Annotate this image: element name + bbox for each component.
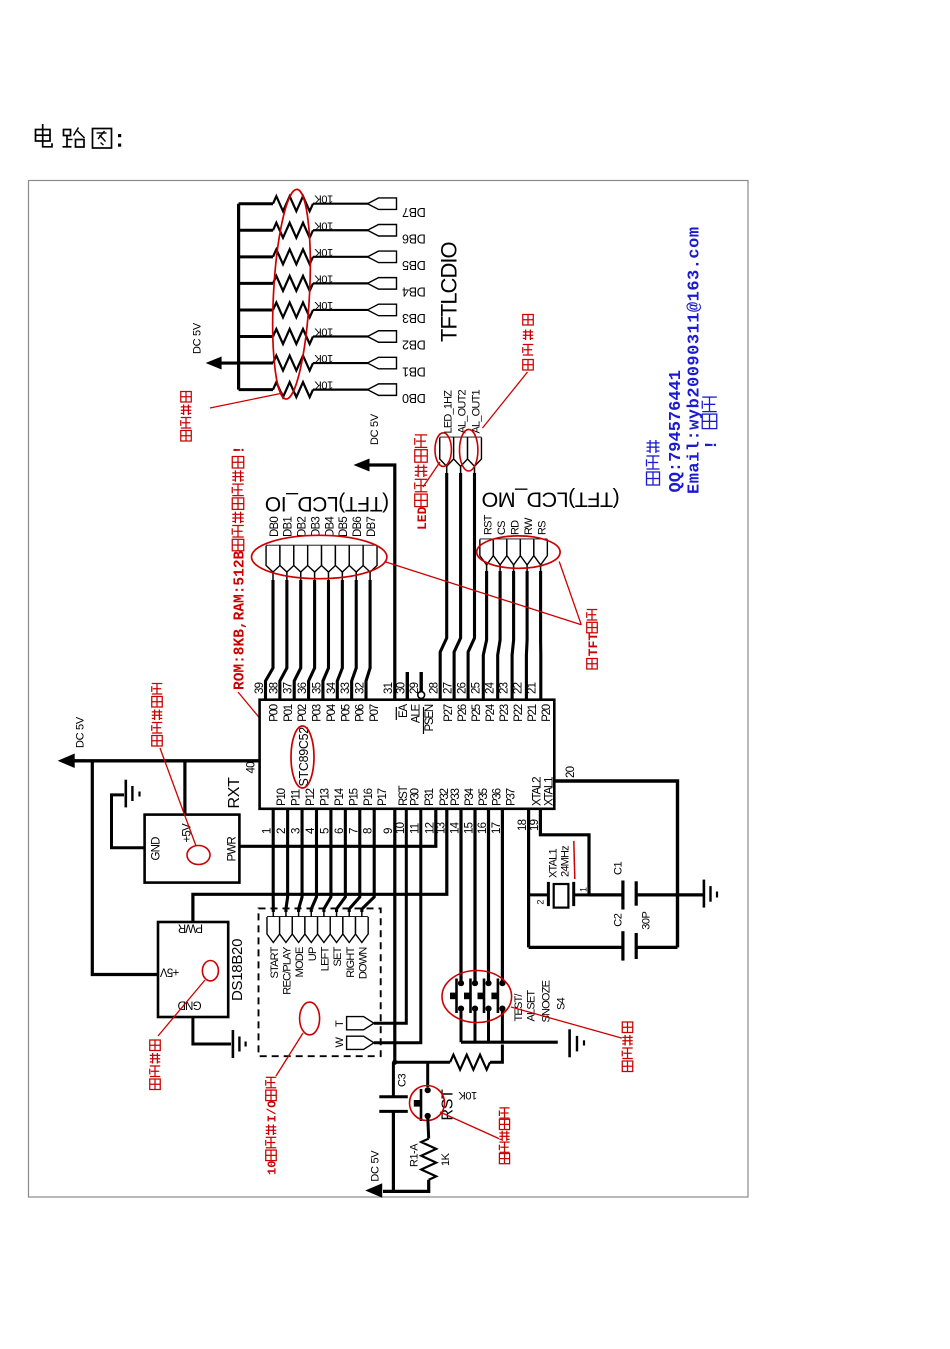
wire button to ground bus: [460, 1009, 463, 1043]
svg-text:P15: P15: [348, 788, 360, 806]
wire CS flag to pin 24: [499, 565, 501, 572]
svg-text:20: 20: [565, 766, 577, 778]
resistor R1 10K pull-up DB7: [239, 202, 273, 205]
svg-text:P21: P21: [527, 704, 539, 722]
svg-text:XTAL1: XTAL1: [543, 777, 555, 806]
svg-text:PSEN: PSEN: [424, 704, 436, 731]
svg-text:10K: 10K: [314, 193, 333, 205]
svg-text:P34: P34: [464, 787, 476, 806]
wire pin 18 (XTAL2) rail: [527, 809, 530, 948]
IR receiver U2 RXT body: [145, 815, 240, 883]
svg-text:2: 2: [535, 900, 545, 905]
wire RD flag to pin 23: [513, 565, 515, 572]
resistor R2 10K (RST pulldown): [450, 1055, 490, 1070]
annotation text 闹钟输出: [523, 360, 534, 371]
svg-text:DB6: DB6: [402, 231, 426, 245]
svg-text:10K: 10K: [314, 219, 333, 231]
annotation leader line (pull-up): [210, 393, 283, 408]
ground (RXT): [125, 780, 128, 808]
svg-text:DB1: DB1: [283, 517, 295, 537]
ground (DS18B20): [232, 1030, 235, 1058]
svg-text:RST: RST: [482, 514, 494, 535]
svg-text:DB5: DB5: [402, 258, 426, 272]
port flag DB0: [368, 384, 397, 396]
wire pin 9 (RST) down to reset node: [393, 809, 396, 1062]
svg-text:10K: 10K: [314, 352, 333, 364]
svg-text:RS: RS: [536, 521, 548, 535]
resistor R1-A 1K: [428, 1116, 429, 1139]
wire button to ground bus: [474, 1009, 477, 1043]
schematic border frame: [29, 181, 749, 1198]
svg-text:(TFT)LCD_MO: (TFT)LCD_MO: [482, 488, 620, 512]
svg-text:P12: P12: [305, 788, 317, 806]
svg-text:SET: SET: [332, 946, 344, 966]
svg-text:39: 39: [254, 682, 266, 694]
svg-text:P37: P37: [505, 788, 517, 806]
svg-text:S4: S4: [556, 997, 568, 1010]
svg-text:10K: 10K: [458, 1089, 477, 1101]
wire pin 7 to RIGHT flag: [349, 809, 360, 912]
annotation text 温度探头: [150, 1079, 161, 1090]
resistor R6 10K pull-up DB2: [239, 335, 273, 338]
svg-text:START: START: [269, 946, 281, 978]
wire DB3 flag to pin 36: [314, 572, 316, 581]
port flag DB7: [368, 198, 397, 210]
wire C1 to ground rail: [636, 893, 703, 896]
port flags START..DOWN (keypad nets): [267, 916, 368, 918]
annotation text 接TFT彩屏: [587, 659, 598, 670]
port flag W: [347, 1036, 374, 1049]
svg-text:P00: P00: [269, 704, 281, 722]
svg-text:35: 35: [311, 682, 323, 694]
svg-text:P06: P06: [355, 704, 367, 722]
svg-text:P07: P07: [369, 704, 381, 722]
svg-text:DC 5V: DC 5V: [75, 716, 87, 748]
svg-text:P30: P30: [409, 788, 421, 806]
wire DB1 flag to pin 38: [286, 572, 288, 581]
resistor R8 10K pull-up DB0: [239, 388, 273, 391]
wire pin 8 to DOWN flag: [362, 809, 374, 912]
svg-text:DS18B20: DS18B20: [229, 939, 246, 1001]
svg-text:!: !: [233, 445, 249, 454]
wire DS18B20 DQ to pin 13 (P33): [193, 809, 447, 922]
svg-text:P35: P35: [478, 788, 490, 806]
resistor R5 10K pull-up DB3: [239, 308, 273, 311]
svg-text:P17: P17: [377, 788, 389, 806]
wire DB4 flag to pin 35: [327, 572, 329, 581]
temperature sensor U3 DS18B20 body: [158, 922, 228, 1017]
svg-text:ROM:8KB,RAM:512B: ROM:8KB,RAM:512B: [233, 550, 249, 690]
annotation ellipse around AL_OUT flags: [460, 429, 478, 471]
crystal Y1 XTAL1 24MHz: [529, 893, 549, 896]
annotation leader 温度探头: [158, 980, 205, 1036]
connector (TFT)LCD_IO port flags DB0-DB7: [266, 545, 377, 547]
svg-text:P14: P14: [334, 787, 346, 806]
port flag DB3: [368, 304, 397, 316]
annotation ellipse around S4: [442, 971, 512, 1023]
svg-text:P26: P26: [457, 704, 469, 722]
annotation ellipse around LCD_MO flags: [477, 536, 560, 568]
svg-text:21: 21: [526, 682, 538, 694]
power DC 5V (pull-up rail): [221, 361, 239, 364]
svg-text:24MHz: 24MHz: [560, 846, 572, 877]
svg-text:DB0: DB0: [269, 517, 281, 537]
wire RST node horizontal: [395, 1061, 450, 1064]
wire DB0 flag to pin 39: [272, 572, 274, 581]
svg-text:P31: P31: [424, 788, 436, 806]
svg-text:10K: 10K: [314, 326, 333, 338]
svg-text:1: 1: [578, 887, 588, 892]
svg-text:LED_1HZ: LED_1HZ: [443, 390, 455, 434]
svg-text:AL_OUT2: AL_OUT2: [456, 390, 468, 434]
wire crystal to C1: [589, 893, 623, 896]
svg-text:GND: GND: [151, 837, 163, 861]
push button S4-2: [472, 980, 478, 986]
wire pin 3 to MODE flag: [299, 809, 302, 912]
svg-text:38: 38: [268, 682, 280, 694]
wire pin 2 to REC/PLAY flag: [286, 809, 288, 912]
wire DS18B20 GND to ground: [193, 1017, 231, 1044]
svg-text:ALSET: ALSET: [526, 990, 538, 1022]
wire DB6 flag to pin 33: [355, 572, 357, 581]
svg-text:XTAL1: XTAL1: [548, 849, 560, 878]
svg-text:LED: LED: [415, 506, 430, 530]
resistor R2 10K pull-up DB6: [239, 229, 273, 232]
svg-text:P10: P10: [276, 788, 288, 806]
svg-text:+5V: +5V: [160, 966, 180, 978]
dashed group box (remote I/O ports): [259, 908, 381, 1056]
svg-text:RIGHT: RIGHT: [345, 946, 357, 977]
wire pin 16 to button: [487, 809, 490, 983]
push button S4-4: [499, 980, 505, 986]
svg-text:P05: P05: [340, 704, 352, 722]
svg-text:40: 40: [246, 762, 258, 774]
svg-text:31: 31: [383, 682, 395, 694]
annotation circle (RXT output): [187, 846, 210, 865]
svg-text:W: W: [334, 1037, 346, 1048]
wire pin 6 to SET flag: [337, 809, 346, 912]
annotation leader 遥控接收头: [160, 748, 196, 846]
wire pin 1 to START flag: [272, 809, 275, 912]
wire RXT PWR to pin 12 (P32): [239, 809, 435, 847]
svg-text:C3: C3: [397, 1074, 409, 1087]
svg-text:DB4: DB4: [324, 516, 336, 537]
annotation text 遥控接收头: [152, 736, 163, 747]
annotation circle around reset button: [410, 1086, 445, 1121]
svg-text:CS: CS: [496, 521, 508, 535]
wire W flag to pin 11 (P31): [374, 809, 421, 1043]
svg-text:1K: 1K: [440, 1152, 452, 1166]
svg-text:P27: P27: [443, 704, 455, 722]
svg-text:PWR: PWR: [178, 922, 203, 934]
wire button to ground bus: [501, 1009, 504, 1043]
annotation text 控制按键: [622, 1061, 633, 1072]
annotation leader 控制按键: [511, 1007, 622, 1038]
pin stub ALE pin 30: [406, 672, 409, 700]
svg-text:DB3: DB3: [402, 311, 426, 325]
wire RW flag to pin 22: [526, 565, 528, 572]
svg-text:P03: P03: [312, 704, 324, 722]
wire DB2 flag to pin 37: [300, 572, 302, 581]
svg-text:DB5: DB5: [338, 517, 350, 537]
wire LED_1HZ flag to pin 28: [446, 466, 448, 474]
svg-text:P11: P11: [291, 789, 303, 806]
svg-text:TFT: TFT: [586, 633, 601, 657]
svg-text:RXT: RXT: [226, 777, 243, 809]
annotation ellipse around pull-up resistors: [268, 188, 315, 400]
svg-text:DB7: DB7: [402, 205, 426, 219]
title text 电路图:: [36, 130, 51, 142]
port flag DB1: [368, 357, 397, 369]
svg-text:EA: EA: [398, 703, 410, 717]
resistor R3 10K pull-up DB5: [239, 255, 273, 258]
svg-text:RD: RD: [509, 520, 521, 535]
resistor R7 10K pull-up DB1: [239, 362, 273, 365]
svg-text:29: 29: [409, 682, 421, 694]
pin stub PSEN pin 29 with bubble: [420, 672, 423, 692]
svg-text:P16: P16: [363, 788, 375, 806]
svg-text:P02: P02: [297, 704, 309, 722]
annotation ellipse around STC89C52: [291, 726, 314, 788]
svg-text:28: 28: [429, 682, 441, 694]
svg-text:DB0: DB0: [402, 391, 426, 405]
port flag DB2: [368, 331, 397, 343]
svg-text:P25: P25: [471, 704, 483, 722]
svg-text:P01: P01: [283, 704, 295, 722]
svg-text:C2: C2: [613, 913, 625, 926]
svg-text:10K: 10K: [314, 379, 333, 391]
svg-text:P23: P23: [499, 704, 511, 722]
wire pin 15 to button: [473, 809, 476, 983]
svg-text:24: 24: [485, 681, 497, 694]
svg-text:RW: RW: [523, 517, 535, 535]
svg-text:33: 33: [340, 682, 352, 694]
wire branch to button: [426, 1062, 429, 1087]
annotation ellipse around LED_1HZ flag: [435, 433, 451, 467]
svg-text:P24: P24: [485, 703, 497, 722]
wire S4 ground bus: [461, 1041, 558, 1044]
wire pin 20 GND rail: [554, 781, 677, 947]
svg-text:RST: RST: [398, 785, 410, 806]
svg-text:DC 5V: DC 5V: [370, 1150, 382, 1182]
capacitor C1 30P: [621, 881, 624, 910]
svg-text:Email:wyb20090311@163.com: Email:wyb20090311@163.com: [686, 226, 705, 494]
svg-text:22: 22: [512, 682, 524, 694]
svg-text:26: 26: [457, 682, 469, 694]
wire pin 5 to LEFT flag: [324, 809, 331, 912]
svg-text:10K: 10K: [314, 272, 333, 284]
wire C2 left: [529, 946, 623, 949]
svg-text:DB4: DB4: [402, 285, 426, 299]
svg-text:LEFT: LEFT: [320, 946, 332, 971]
svg-text:P13: P13: [319, 788, 331, 806]
power DC 5V (reset): [365, 1183, 382, 1198]
node RST junction: [392, 1060, 397, 1065]
svg-text:TFTLCDIO: TFTLCDIO: [437, 242, 462, 342]
wire DB5 flag to pin 34: [341, 572, 343, 581]
wire AL_OUT1 flag to pin 26: [474, 466, 476, 474]
svg-text:23: 23: [498, 682, 510, 694]
svg-text:REC/PLAY: REC/PLAY: [282, 946, 294, 995]
annotation ellipse (I/O): [300, 1002, 320, 1035]
svg-text:R1-A: R1-A: [409, 1143, 421, 1167]
svg-text:9: 9: [383, 828, 395, 834]
push button S4-3: [485, 980, 491, 986]
svg-text:DB6: DB6: [352, 517, 364, 537]
svg-text:DB1: DB1: [402, 364, 426, 378]
annotation leader 10路遥控I/O输出: [276, 1033, 303, 1076]
svg-text:30P: 30P: [641, 911, 653, 929]
wire C2 right: [636, 946, 677, 949]
annotation text 这里一定要: [499, 1154, 509, 1164]
push button S4-1: [458, 980, 464, 986]
node VCC bus (pull-up resistors common rail): [237, 204, 240, 390]
power DC 5V (EA pin 31): [369, 465, 395, 700]
svg-text:30: 30: [395, 682, 407, 694]
resistor R4 10K pull-up DB4: [239, 282, 273, 285]
svg-text:DOWN: DOWN: [357, 947, 369, 979]
svg-text:MODE: MODE: [294, 947, 306, 977]
wire RST flag to pin 25: [486, 565, 488, 572]
annotation leader 这里一定要: [440, 1112, 499, 1139]
svg-text:25: 25: [471, 682, 483, 694]
wire pin 17 to button: [501, 809, 504, 983]
wire RXT GND to ground: [112, 795, 145, 848]
svg-text:!: !: [703, 440, 722, 450]
annotation text 上拉电阻: [181, 431, 192, 442]
push button RST (reset): [425, 1087, 431, 1093]
wire pin 14 to button: [459, 809, 462, 983]
svg-text:DB7: DB7: [366, 517, 378, 537]
annotation circle (DS18B20): [202, 961, 218, 981]
wire VCC to RXT +5V: [183, 761, 186, 815]
svg-text:DC 5V: DC 5V: [369, 413, 381, 445]
svg-text:34: 34: [326, 681, 338, 694]
svg-text:C1: C1: [613, 862, 625, 875]
svg-text:ALE: ALE: [410, 703, 422, 723]
svg-text:P20: P20: [541, 704, 553, 722]
power DC 5V (main, pin 40): [84, 759, 260, 762]
annotation red mark (24MHz): [574, 841, 575, 879]
svg-text:UP: UP: [307, 947, 319, 961]
ground (crystal): [703, 880, 706, 908]
port flag DB5: [368, 251, 397, 263]
port flag T: [347, 1017, 374, 1030]
wire pin 4 to UP flag: [311, 809, 316, 912]
svg-text:P04: P04: [326, 703, 338, 722]
wire T flag to pin 10 (P30): [374, 809, 406, 1023]
svg-text:TEST/: TEST/: [513, 993, 525, 1022]
annotation leaders to 接TFT彩屏: [386, 562, 581, 625]
svg-text:I/O: I/O: [266, 1101, 280, 1123]
svg-text:P33: P33: [450, 788, 462, 806]
svg-text:DB3: DB3: [310, 517, 322, 537]
svg-text:STC89C52: STC89C52: [297, 727, 311, 787]
svg-text:DC 5V: DC 5V: [192, 322, 204, 354]
svg-text:10K: 10K: [314, 246, 333, 258]
port flag DB4: [368, 278, 397, 290]
annotation leader ROM: [238, 692, 297, 763]
capacitor C2 30P: [621, 931, 624, 960]
annotation leader LED: [423, 462, 440, 487]
svg-text:10K: 10K: [314, 299, 333, 311]
port flag DB6: [368, 225, 397, 237]
svg-text:27: 27: [443, 682, 455, 694]
svg-text:DB2: DB2: [297, 517, 309, 537]
svg-text:XTAL2: XTAL2: [532, 777, 544, 806]
capacitor C3: [392, 1062, 395, 1097]
wire DB7 flag to pin 32: [369, 572, 371, 581]
wire VCC rail down-left: [92, 761, 158, 975]
svg-text:32: 32: [355, 682, 367, 694]
ground (S4): [568, 1029, 571, 1057]
svg-text:PWR: PWR: [227, 837, 239, 862]
svg-text:AL_OUT1: AL_OUT1: [470, 390, 482, 434]
svg-text:P22: P22: [513, 704, 525, 722]
wire button to ground bus: [487, 1009, 490, 1043]
port flags LED_1HZ AL_OUT2 AL_OUT1: [440, 437, 482, 439]
svg-text:(TFT)LCD_IO: (TFT)LCD_IO: [265, 492, 389, 515]
svg-text:P36: P36: [492, 788, 504, 806]
wire AL_OUT2 flag to pin 27: [460, 466, 462, 474]
svg-text:10: 10: [266, 1161, 280, 1175]
svg-text:36: 36: [297, 682, 309, 694]
svg-text:DB2: DB2: [402, 338, 426, 352]
annotation leader (闹钟输出): [482, 372, 527, 428]
wire RS flag to pin 21: [540, 565, 542, 572]
annotation ellipse around LCD_IO flags: [252, 535, 387, 578]
svg-text:37: 37: [283, 682, 295, 694]
wire pin 19 (XTAL1) elbow: [540, 809, 589, 895]
svg-text:QQ:794576441: QQ:794576441: [667, 370, 686, 492]
svg-text:T: T: [334, 1020, 346, 1027]
signature text (blue) 王永贫 QQ Email: [647, 472, 660, 485]
port flags RST CS RD RW RS: [480, 538, 547, 540]
MCU U1 STC89C52 body: [260, 700, 555, 809]
